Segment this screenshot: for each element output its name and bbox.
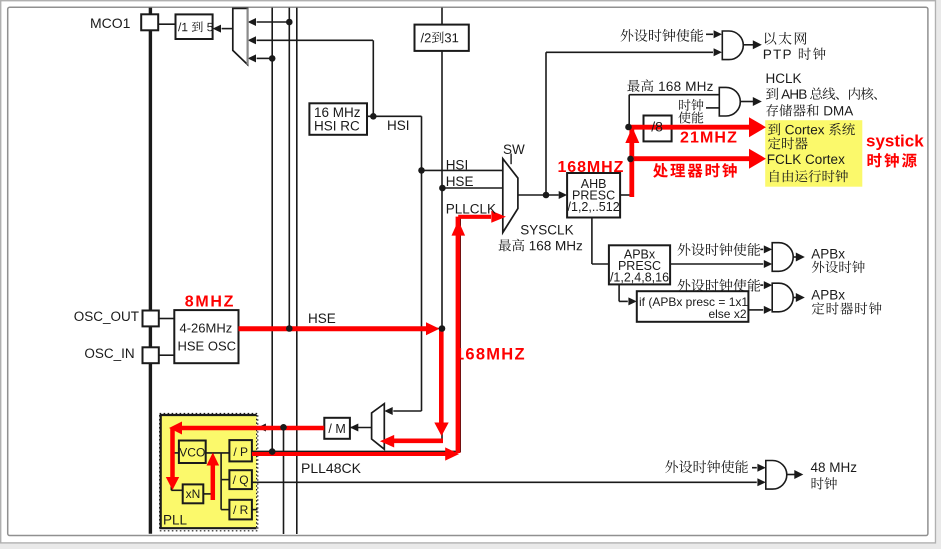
svg-text:APBx: APBx bbox=[811, 246, 845, 261]
svg-text:xN: xN bbox=[186, 487, 201, 501]
svg-text:MCO1: MCO1 bbox=[90, 15, 131, 31]
svg-text:PLLCLK: PLLCLK bbox=[446, 201, 496, 216]
svg-text:HSE: HSE bbox=[446, 174, 474, 189]
svg-text:168MHZ: 168MHZ bbox=[558, 159, 625, 176]
svg-text:168MHZ: 168MHZ bbox=[455, 346, 526, 364]
svg-text:PLL48CK: PLL48CK bbox=[301, 460, 362, 476]
svg-text:/8: /8 bbox=[651, 118, 663, 134]
svg-text:8MHZ: 8MHZ bbox=[185, 294, 235, 311]
svg-text:HSI RC: HSI RC bbox=[314, 118, 360, 133]
svg-text:HCLK: HCLK bbox=[766, 71, 802, 86]
svg-text:/1,2,..512: /1,2,..512 bbox=[568, 200, 620, 214]
svg-text:HSI: HSI bbox=[387, 118, 410, 133]
svg-text:4-26MHz: 4-26MHz bbox=[180, 320, 233, 335]
svg-text:48 MHz: 48 MHz bbox=[811, 460, 858, 475]
svg-text:HSE: HSE bbox=[308, 311, 336, 326]
svg-text:/ M: / M bbox=[328, 422, 345, 436]
svg-text:OSC_IN: OSC_IN bbox=[84, 346, 134, 361]
svg-text:APBx: APBx bbox=[811, 287, 845, 302]
svg-text:else x2: else x2 bbox=[708, 307, 746, 321]
svg-text:systick: systick bbox=[866, 132, 924, 151]
svg-text:HSI: HSI bbox=[446, 157, 469, 172]
svg-text:FCLK Cortex: FCLK Cortex bbox=[767, 152, 845, 167]
svg-text:/ P: / P bbox=[233, 445, 248, 459]
svg-text:SYSCLK: SYSCLK bbox=[520, 222, 573, 237]
svg-text:VCO: VCO bbox=[179, 446, 205, 460]
svg-text:PLL: PLL bbox=[163, 512, 188, 527]
svg-text:/ R: / R bbox=[233, 503, 249, 517]
svg-text:HSE OSC: HSE OSC bbox=[178, 339, 237, 354]
svg-text:OSC_OUT: OSC_OUT bbox=[74, 309, 139, 324]
svg-text:21MHZ: 21MHZ bbox=[680, 130, 738, 147]
svg-text:/1,2,4,8,16: /1,2,4,8,16 bbox=[610, 271, 669, 285]
svg-text:SW: SW bbox=[503, 142, 525, 157]
svg-text:/ Q: / Q bbox=[233, 473, 249, 487]
